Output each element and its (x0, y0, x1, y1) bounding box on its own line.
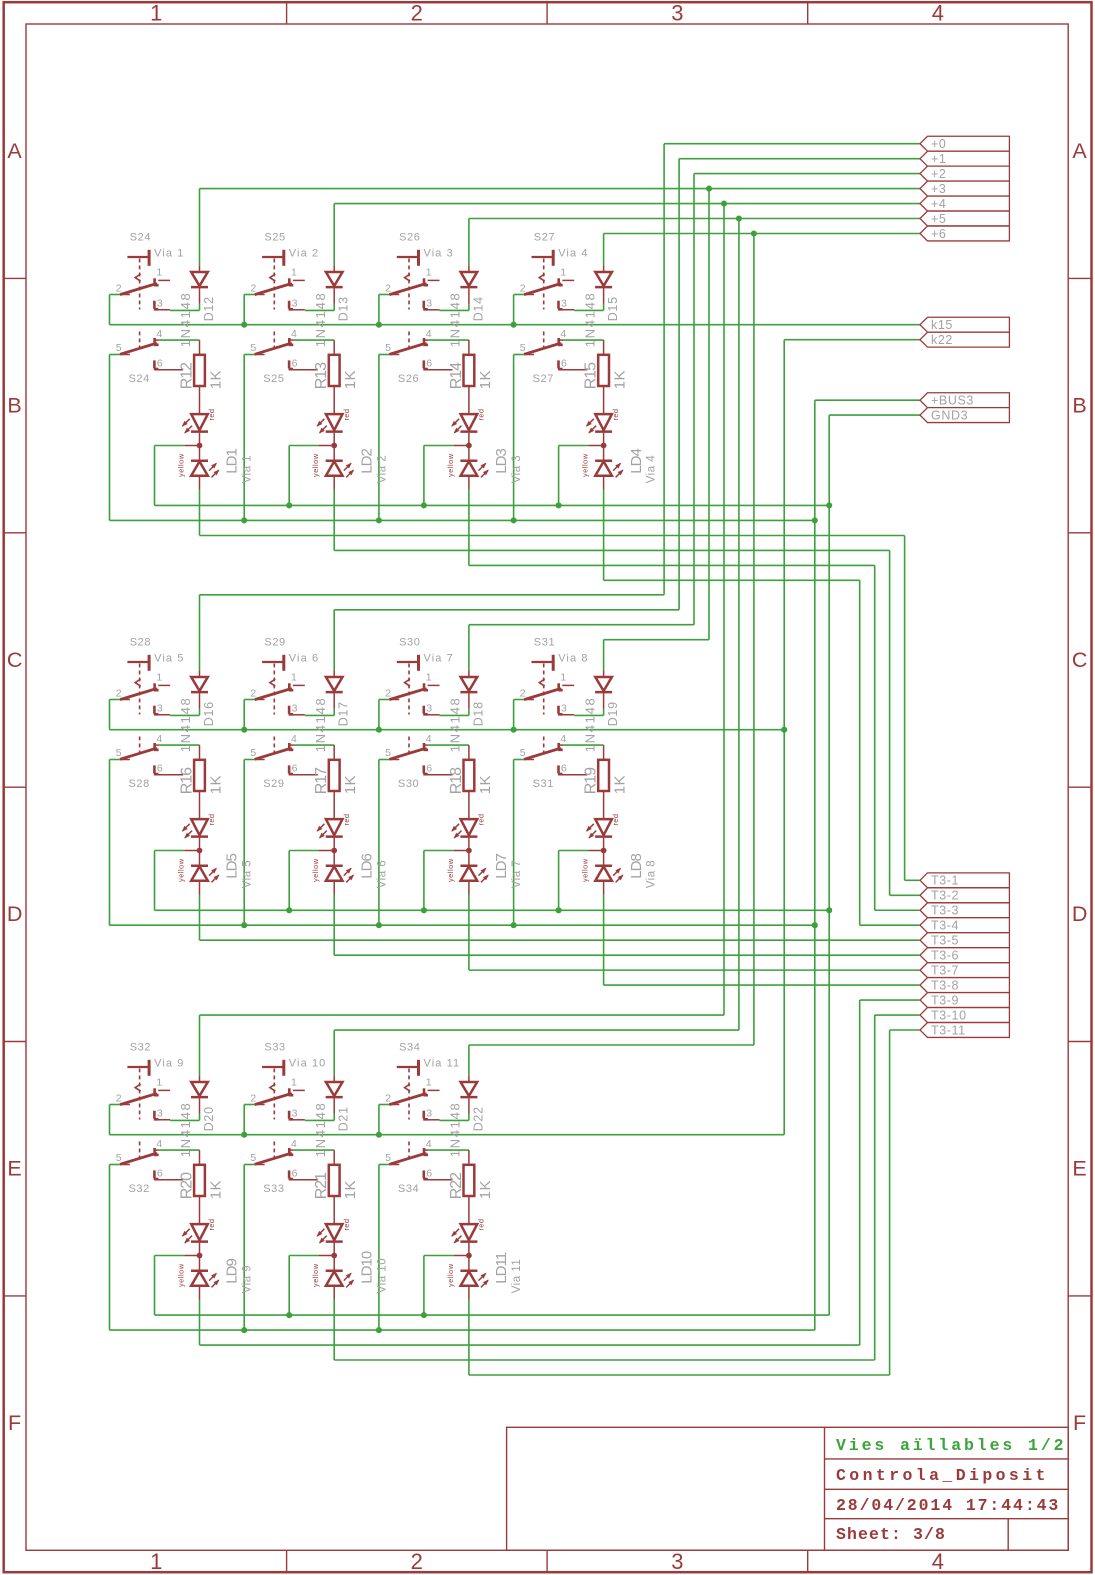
svg-text:S33: S33 (263, 1183, 284, 1195)
svg-text:1K: 1K (342, 370, 359, 389)
svg-text:D20: D20 (202, 1106, 216, 1131)
svg-text:4: 4 (932, 0, 944, 25)
svg-text:Via 8: Via 8 (558, 653, 588, 665)
svg-text:S29: S29 (264, 637, 285, 649)
svg-text:T3-9: T3-9 (931, 993, 959, 1007)
svg-text:+2: +2 (931, 167, 946, 181)
svg-text:D: D (1072, 902, 1088, 926)
svg-text:Via 6: Via 6 (289, 653, 319, 665)
svg-text:1: 1 (150, 0, 162, 25)
svg-text:Via 2: Via 2 (376, 455, 388, 484)
svg-text:C: C (7, 648, 23, 672)
svg-text:+0: +0 (931, 137, 946, 151)
svg-text:S32: S32 (130, 1042, 151, 1054)
svg-text:+4: +4 (931, 197, 946, 211)
svg-text:+5: +5 (931, 212, 946, 226)
svg-text:3: 3 (671, 1549, 683, 1574)
svg-text:R14: R14 (448, 362, 465, 389)
svg-text:D12: D12 (202, 296, 216, 321)
svg-text:S30: S30 (399, 637, 420, 649)
svg-text:LD3: LD3 (493, 449, 510, 474)
svg-text:LD11: LD11 (493, 1252, 510, 1283)
svg-text:D21: D21 (337, 1106, 351, 1131)
svg-text:R15: R15 (583, 362, 600, 389)
svg-text:S27: S27 (533, 373, 554, 385)
svg-text:S26: S26 (398, 373, 419, 385)
svg-text:T3-6: T3-6 (931, 948, 959, 962)
svg-text:D19: D19 (606, 701, 620, 726)
svg-text:D14: D14 (471, 296, 485, 321)
svg-text:S34: S34 (399, 1042, 420, 1054)
svg-text:F: F (8, 1411, 21, 1435)
svg-text:1K: 1K (342, 775, 359, 794)
svg-text:T3-2: T3-2 (931, 889, 959, 903)
svg-text:1K: 1K (207, 370, 224, 389)
svg-text:1K: 1K (477, 370, 494, 389)
svg-text:Via 10: Via 10 (289, 1058, 327, 1070)
svg-text:Via 1: Via 1 (242, 455, 254, 484)
svg-text:2: 2 (411, 1549, 423, 1574)
svg-text:GND3: GND3 (931, 408, 968, 422)
svg-text:k22: k22 (931, 333, 953, 347)
svg-text:LD7: LD7 (493, 854, 510, 879)
svg-text:4: 4 (932, 1549, 944, 1574)
svg-text:T3-5: T3-5 (931, 933, 959, 947)
svg-text:+BUS3: +BUS3 (931, 394, 974, 408)
svg-text:LD4: LD4 (628, 449, 645, 474)
svg-text:T3-3: T3-3 (931, 904, 959, 918)
svg-text:1K: 1K (207, 1180, 224, 1199)
svg-text:D15: D15 (606, 296, 620, 321)
svg-text:C: C (1072, 648, 1088, 672)
svg-text:1K: 1K (477, 1180, 494, 1199)
svg-text:1K: 1K (612, 370, 629, 389)
svg-text:3: 3 (671, 0, 683, 25)
svg-text:Via 10: Via 10 (376, 1258, 388, 1293)
svg-text:R18: R18 (448, 767, 465, 794)
svg-text:R13: R13 (313, 362, 330, 389)
svg-text:E: E (1072, 1157, 1086, 1181)
svg-text:A: A (7, 139, 22, 163)
svg-text:k15: k15 (931, 318, 953, 332)
svg-text:S25: S25 (264, 232, 285, 244)
svg-text:Via 2: Via 2 (289, 248, 319, 260)
svg-text:A: A (1072, 139, 1087, 163)
svg-text:Controla_Diposit: Controla_Diposit (836, 1466, 1049, 1485)
svg-text:1: 1 (150, 1549, 162, 1574)
svg-text:S28: S28 (129, 778, 150, 790)
svg-text:Via 9: Via 9 (242, 1265, 254, 1294)
svg-text:T3-11: T3-11 (931, 1023, 966, 1037)
svg-text:LD10: LD10 (358, 1251, 375, 1284)
svg-text:LD8: LD8 (628, 854, 645, 879)
svg-text:B: B (1072, 394, 1086, 418)
svg-text:Vies aïllables 1/2: Vies aïllables 1/2 (836, 1436, 1066, 1455)
svg-text:1K: 1K (612, 775, 629, 794)
svg-text:LD1: LD1 (224, 449, 241, 474)
svg-text:LD9: LD9 (224, 1259, 241, 1284)
svg-text:S28: S28 (130, 637, 151, 649)
svg-text:B: B (7, 394, 21, 418)
svg-text:Via 8: Via 8 (646, 860, 658, 889)
svg-text:S31: S31 (534, 637, 555, 649)
svg-text:Via 1: Via 1 (154, 248, 184, 260)
svg-text:1K: 1K (477, 775, 494, 794)
svg-text:D16: D16 (202, 701, 216, 726)
svg-text:Sheet: 3/8: Sheet: 3/8 (836, 1525, 946, 1544)
svg-text:LD5: LD5 (224, 854, 241, 879)
svg-text:1K: 1K (207, 775, 224, 794)
svg-text:Via 3: Via 3 (511, 455, 523, 484)
svg-text:Via 7: Via 7 (511, 860, 523, 889)
svg-text:Via 4: Via 4 (646, 455, 658, 484)
svg-text:S24: S24 (130, 232, 151, 244)
svg-text:S34: S34 (398, 1183, 419, 1195)
svg-text:S27: S27 (534, 232, 555, 244)
svg-text:E: E (7, 1157, 21, 1181)
svg-text:T3-1: T3-1 (931, 874, 959, 888)
svg-text:S26: S26 (399, 232, 420, 244)
svg-text:Via 5: Via 5 (242, 860, 254, 889)
svg-text:1K: 1K (342, 1180, 359, 1199)
svg-text:T3-4: T3-4 (931, 919, 959, 933)
svg-text:T3-7: T3-7 (931, 963, 959, 977)
svg-text:D22: D22 (471, 1106, 485, 1131)
svg-text:F: F (1073, 1411, 1086, 1435)
svg-text:D: D (7, 902, 23, 926)
svg-text:Via 11: Via 11 (511, 1259, 523, 1294)
svg-text:28/04/2014 17:44:43: 28/04/2014 17:44:43 (836, 1496, 1060, 1515)
svg-text:R21: R21 (313, 1172, 330, 1199)
svg-text:S33: S33 (264, 1042, 285, 1054)
svg-text:Via 5: Via 5 (154, 653, 184, 665)
svg-text:D18: D18 (471, 701, 485, 726)
svg-text:R22: R22 (448, 1172, 465, 1199)
svg-text:Via 7: Via 7 (424, 653, 454, 665)
svg-text:S30: S30 (398, 778, 419, 790)
svg-text:+6: +6 (931, 227, 946, 241)
svg-text:S29: S29 (263, 778, 284, 790)
svg-text:Via 6: Via 6 (376, 860, 388, 889)
svg-text:LD2: LD2 (358, 449, 375, 474)
svg-text:T3-8: T3-8 (931, 978, 959, 992)
svg-text:S31: S31 (533, 778, 554, 790)
svg-text:S32: S32 (129, 1183, 150, 1195)
svg-text:R12: R12 (179, 362, 196, 389)
svg-text:Via 3: Via 3 (424, 248, 454, 260)
svg-text:D13: D13 (337, 296, 351, 321)
svg-text:LD6: LD6 (358, 854, 375, 879)
svg-text:Via 11: Via 11 (424, 1058, 461, 1070)
svg-text:S25: S25 (263, 373, 284, 385)
svg-text:S24: S24 (129, 373, 150, 385)
svg-text:R20: R20 (179, 1172, 196, 1199)
svg-text:Via 9: Via 9 (154, 1058, 184, 1070)
svg-text:R17: R17 (313, 767, 330, 794)
svg-text:R19: R19 (583, 767, 600, 794)
svg-text:+3: +3 (931, 182, 946, 196)
svg-text:R16: R16 (179, 767, 196, 794)
svg-text:Via 4: Via 4 (558, 248, 588, 260)
svg-text:+1: +1 (931, 152, 946, 166)
svg-text:T3-10: T3-10 (931, 1008, 967, 1022)
svg-text:2: 2 (411, 0, 423, 25)
svg-text:D17: D17 (337, 701, 351, 726)
